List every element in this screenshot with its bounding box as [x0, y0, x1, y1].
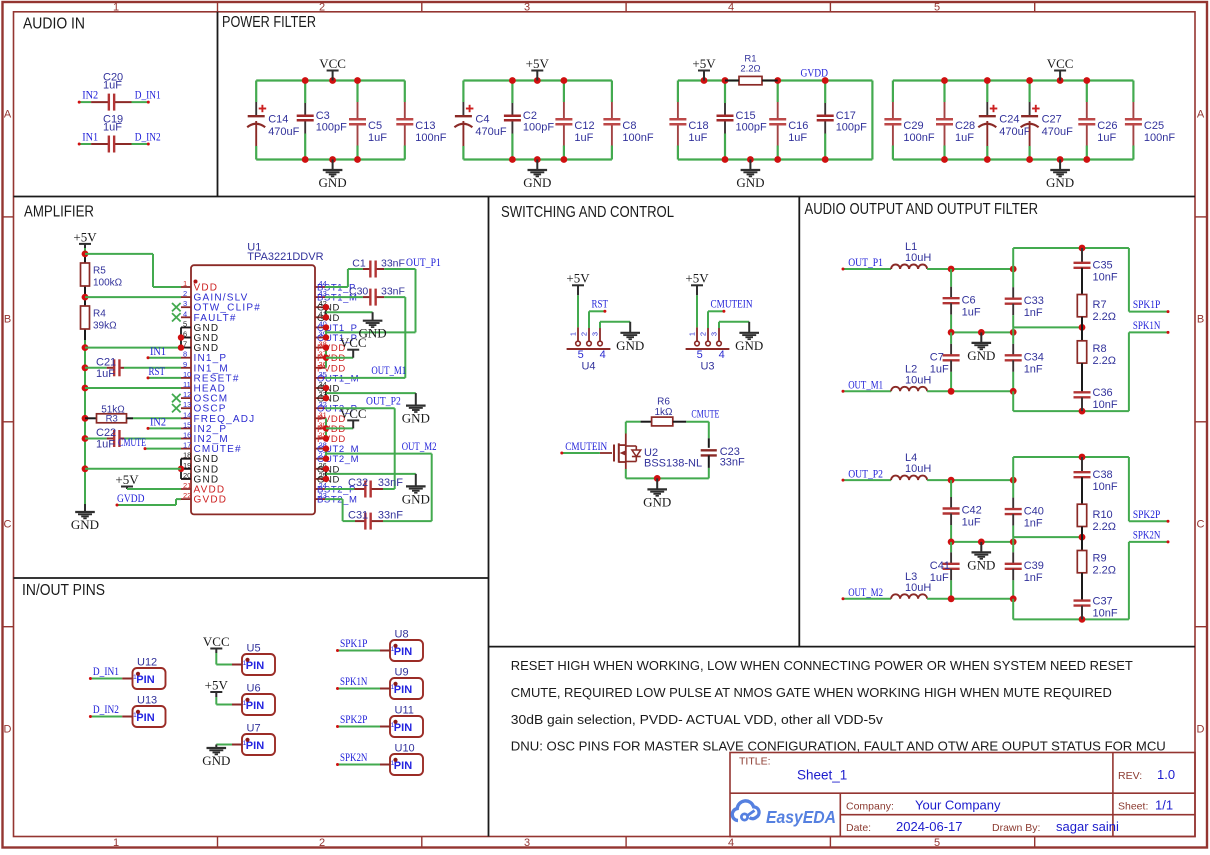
- svg-text:+5V: +5V: [73, 229, 97, 244]
- svg-text:GND: GND: [643, 494, 671, 509]
- svg-text:SPK1P: SPK1P: [340, 638, 367, 650]
- svg-text:100pF: 100pF: [316, 122, 347, 134]
- svg-text:C8: C8: [622, 120, 636, 132]
- svg-text:C5: C5: [368, 120, 382, 132]
- svg-text:OUT_P1: OUT_P1: [406, 257, 441, 269]
- svg-text:3: 3: [524, 837, 530, 849]
- svg-text:U11: U11: [395, 705, 414, 717]
- svg-text:D_IN2: D_IN2: [135, 132, 161, 144]
- svg-text:OUT_M2: OUT_M2: [402, 441, 437, 453]
- svg-text:15: 15: [183, 420, 191, 429]
- svg-text:1: 1: [183, 279, 187, 288]
- svg-text:39kΩ: 39kΩ: [93, 321, 117, 332]
- svg-text:1: 1: [569, 332, 578, 336]
- svg-text:PIN: PIN: [394, 646, 412, 658]
- svg-text:1: 1: [391, 760, 395, 767]
- svg-text:1: 1: [113, 837, 119, 849]
- svg-text:5: 5: [697, 349, 703, 361]
- svg-text:2.2Ω: 2.2Ω: [1093, 521, 1117, 533]
- svg-text:R10: R10: [1093, 509, 1113, 521]
- svg-text:IN/OUT PINS: IN/OUT PINS: [22, 582, 105, 599]
- svg-text:100pF: 100pF: [736, 122, 767, 134]
- svg-text:1/1: 1/1: [1155, 798, 1173, 813]
- svg-text:33nF: 33nF: [378, 509, 403, 521]
- svg-text:1nF: 1nF: [1024, 307, 1043, 319]
- svg-text:C13: C13: [415, 120, 435, 132]
- svg-text:R8: R8: [1093, 343, 1107, 355]
- svg-text:R7: R7: [1093, 299, 1107, 311]
- svg-text:33nF: 33nF: [381, 285, 405, 297]
- svg-text:VCC: VCC: [1047, 56, 1074, 71]
- svg-text:A: A: [4, 109, 12, 121]
- svg-text:SPK1P: SPK1P: [1133, 299, 1160, 311]
- svg-text:+5V: +5V: [566, 271, 590, 286]
- svg-text:PIN: PIN: [246, 700, 264, 712]
- svg-text:R3: R3: [106, 414, 118, 425]
- svg-text:470uF: 470uF: [999, 126, 1030, 138]
- svg-text:B: B: [4, 314, 11, 326]
- svg-text:IN2: IN2: [82, 90, 98, 102]
- svg-text:RST: RST: [149, 366, 166, 378]
- svg-text:21: 21: [183, 481, 191, 490]
- svg-text:C28: C28: [955, 120, 975, 132]
- svg-text:TITLE:: TITLE:: [739, 756, 771, 768]
- svg-text:100nF: 100nF: [622, 132, 653, 144]
- svg-text:R9: R9: [1093, 553, 1107, 565]
- svg-text:A: A: [1197, 109, 1205, 121]
- svg-text:PIN: PIN: [394, 760, 412, 772]
- svg-text:OUT_M1: OUT_M1: [848, 380, 883, 392]
- svg-text:16: 16: [183, 431, 191, 440]
- svg-text:SPK2N: SPK2N: [340, 752, 368, 764]
- svg-text:C2: C2: [523, 110, 537, 122]
- svg-text:2.2Ω: 2.2Ω: [1093, 355, 1117, 367]
- svg-text:30dB gain selection, PVDD- ACT: 30dB gain selection, PVDD- ACTUAL VDD, o…: [511, 713, 884, 727]
- svg-text:C35: C35: [1093, 260, 1113, 272]
- svg-text:C: C: [1197, 519, 1205, 531]
- svg-text:1uF: 1uF: [955, 132, 974, 144]
- svg-text:33nF: 33nF: [720, 457, 745, 469]
- svg-text:5: 5: [934, 837, 940, 849]
- svg-text:17: 17: [183, 441, 191, 450]
- svg-text:GND: GND: [1046, 175, 1074, 190]
- svg-text:D: D: [4, 724, 12, 736]
- svg-text:10nF: 10nF: [1093, 607, 1118, 619]
- svg-text:Date:: Date:: [846, 822, 871, 834]
- svg-text:GND: GND: [523, 175, 551, 190]
- svg-text:Your Company: Your Company: [915, 798, 1001, 813]
- svg-text:100nF: 100nF: [903, 132, 934, 144]
- svg-text:5: 5: [934, 1, 940, 13]
- svg-text:1: 1: [243, 660, 247, 667]
- svg-text:3: 3: [710, 332, 719, 336]
- svg-text:1uF: 1uF: [930, 364, 949, 376]
- svg-text:C33: C33: [1024, 295, 1044, 307]
- svg-text:U8: U8: [395, 629, 409, 641]
- svg-text:C29: C29: [903, 120, 923, 132]
- svg-text:U5: U5: [247, 643, 261, 655]
- svg-text:4: 4: [719, 349, 725, 361]
- svg-text:C1: C1: [352, 257, 366, 269]
- svg-text:2: 2: [183, 289, 187, 298]
- svg-text:1uF: 1uF: [962, 306, 981, 318]
- svg-text:IN1: IN1: [82, 132, 98, 144]
- svg-text:1uF: 1uF: [368, 132, 387, 144]
- svg-text:100pF: 100pF: [836, 122, 867, 134]
- svg-text:SPK2N: SPK2N: [1133, 530, 1161, 542]
- svg-text:1.0: 1.0: [1157, 767, 1175, 782]
- svg-text:CMUTEIN: CMUTEIN: [711, 299, 754, 311]
- svg-text:GND: GND: [967, 557, 995, 572]
- svg-text:CMUTE, REQUIRED LOW PULSE AT N: CMUTE, REQUIRED LOW PULSE AT NMOS GATE W…: [511, 686, 1112, 700]
- svg-text:U6: U6: [247, 683, 261, 695]
- svg-text:C38: C38: [1093, 469, 1113, 481]
- svg-text:C15: C15: [736, 110, 756, 122]
- svg-text:C25: C25: [1144, 120, 1164, 132]
- svg-text:10uH: 10uH: [905, 463, 931, 475]
- svg-text:2.2Ω: 2.2Ω: [1093, 565, 1117, 577]
- svg-text:5: 5: [578, 349, 584, 361]
- svg-text:GND: GND: [616, 338, 644, 353]
- svg-text:1: 1: [391, 646, 395, 653]
- svg-text:Drawn By:: Drawn By:: [992, 822, 1040, 834]
- svg-text:10uH: 10uH: [905, 252, 931, 264]
- svg-text:C31: C31: [348, 509, 368, 521]
- svg-text:SPK1N: SPK1N: [1133, 320, 1161, 332]
- svg-text:C40: C40: [1024, 505, 1044, 517]
- svg-text:C3: C3: [316, 110, 330, 122]
- svg-text:10uH: 10uH: [905, 374, 931, 386]
- svg-text:1uF: 1uF: [103, 79, 122, 91]
- svg-text:BSS138-NL: BSS138-NL: [644, 458, 702, 470]
- svg-text:R6: R6: [657, 396, 670, 407]
- svg-text:D_IN2: D_IN2: [93, 704, 119, 716]
- svg-text:Sheet_1: Sheet_1: [797, 768, 847, 783]
- svg-text:GVDD: GVDD: [194, 495, 228, 506]
- svg-text:31: 31: [319, 410, 327, 419]
- svg-text:D_IN1: D_IN1: [93, 666, 119, 678]
- svg-text:+5V: +5V: [526, 56, 550, 71]
- svg-text:U10: U10: [395, 743, 415, 755]
- svg-text:CMUTEIN: CMUTEIN: [565, 441, 608, 453]
- svg-text:C4: C4: [475, 114, 489, 126]
- svg-text:C: C: [4, 519, 12, 531]
- svg-text:1: 1: [688, 332, 697, 336]
- svg-text:10nF: 10nF: [1093, 481, 1118, 493]
- svg-text:1: 1: [133, 712, 137, 719]
- svg-text:C14: C14: [268, 114, 288, 126]
- svg-text:C21: C21: [96, 357, 116, 369]
- svg-text:C36: C36: [1093, 387, 1113, 399]
- svg-text:AMPLIFIER: AMPLIFIER: [24, 204, 94, 221]
- svg-text:3: 3: [183, 299, 187, 308]
- svg-text:C6: C6: [962, 294, 976, 306]
- svg-text:REV:: REV:: [1118, 770, 1142, 782]
- svg-text:2: 2: [699, 332, 708, 336]
- svg-text:1: 1: [391, 684, 395, 691]
- svg-text:C27: C27: [1042, 114, 1062, 126]
- svg-text:AUDIO OUTPUT AND OUTPUT FILTER: AUDIO OUTPUT AND OUTPUT FILTER: [805, 201, 1039, 218]
- svg-text:3: 3: [591, 332, 600, 336]
- svg-text:2: 2: [319, 837, 325, 849]
- svg-text:100pF: 100pF: [523, 122, 554, 134]
- svg-text:VCC: VCC: [203, 634, 230, 649]
- svg-text:DNU: OSC PINS FOR MASTER SLAVE: DNU: OSC PINS FOR MASTER SLAVE CONFIGURA…: [511, 740, 1166, 754]
- svg-text:470uF: 470uF: [268, 126, 299, 138]
- svg-text:SPK1N: SPK1N: [340, 676, 368, 688]
- svg-text:C30: C30: [349, 285, 368, 297]
- svg-text:1uF: 1uF: [96, 439, 115, 451]
- svg-text:2: 2: [319, 1, 325, 13]
- svg-text:C39: C39: [1024, 560, 1044, 572]
- svg-text:D: D: [1197, 724, 1205, 736]
- svg-text:OUT_M2: OUT_M2: [848, 587, 883, 599]
- svg-text:U13: U13: [137, 695, 157, 707]
- svg-text:C24: C24: [999, 114, 1019, 126]
- svg-text:GND: GND: [71, 517, 99, 532]
- svg-text:4: 4: [728, 837, 734, 849]
- svg-text:C18: C18: [688, 120, 708, 132]
- svg-text:sagar saini: sagar saini: [1056, 819, 1119, 834]
- svg-text:B: B: [1197, 314, 1204, 326]
- svg-text:GVDD: GVDD: [117, 493, 145, 505]
- svg-text:14: 14: [183, 410, 191, 419]
- svg-text:U3: U3: [700, 361, 714, 373]
- svg-text:D_IN1: D_IN1: [135, 90, 161, 102]
- svg-text:3: 3: [524, 1, 530, 13]
- svg-text:CMUTE: CMUTE: [118, 437, 146, 449]
- svg-text:1: 1: [391, 722, 395, 729]
- svg-text:13: 13: [183, 400, 191, 409]
- svg-text:4: 4: [728, 1, 734, 13]
- svg-text:470uF: 470uF: [1042, 126, 1073, 138]
- svg-text:+5V: +5V: [205, 677, 229, 692]
- svg-text:TPA3221DDVR: TPA3221DDVR: [247, 251, 323, 263]
- svg-text:GND: GND: [202, 753, 230, 768]
- svg-text:PIN: PIN: [136, 712, 154, 724]
- svg-text:C26: C26: [1097, 120, 1117, 132]
- svg-text:VCC: VCC: [340, 335, 367, 350]
- svg-text:GND: GND: [319, 175, 347, 190]
- svg-text:GND: GND: [402, 411, 430, 426]
- svg-text:10nF: 10nF: [1093, 272, 1118, 284]
- svg-text:1uF: 1uF: [788, 132, 807, 144]
- svg-text:1: 1: [133, 674, 137, 681]
- svg-text:2024-06-17: 2024-06-17: [896, 819, 963, 834]
- svg-text:4: 4: [183, 309, 187, 318]
- svg-text:OUT_P2: OUT_P2: [848, 468, 883, 480]
- svg-text:IN1: IN1: [150, 346, 166, 358]
- svg-text:C12: C12: [574, 120, 594, 132]
- svg-text:SPK2P: SPK2P: [340, 714, 367, 726]
- svg-text:1kΩ: 1kΩ: [654, 407, 673, 418]
- svg-text:1uF: 1uF: [574, 132, 593, 144]
- svg-text:C42: C42: [962, 505, 982, 517]
- svg-text:GND: GND: [402, 491, 430, 506]
- svg-text:8: 8: [183, 350, 187, 359]
- svg-text:RST: RST: [592, 299, 609, 311]
- svg-text:10: 10: [183, 370, 191, 379]
- svg-text:22: 22: [183, 491, 191, 500]
- svg-text:1uF: 1uF: [930, 572, 949, 584]
- svg-text:100kΩ: 100kΩ: [93, 278, 123, 289]
- svg-text:U12: U12: [137, 657, 157, 669]
- svg-text:OUT_P1: OUT_P1: [848, 257, 883, 269]
- svg-text:C41: C41: [930, 560, 950, 572]
- svg-text:PIN: PIN: [394, 722, 412, 734]
- svg-text:RESET HIGH WHEN WORKING, LOW W: RESET HIGH WHEN WORKING, LOW WHEN CONNEC…: [511, 659, 1133, 673]
- svg-text:1: 1: [243, 700, 247, 707]
- svg-text:R4: R4: [93, 309, 106, 320]
- svg-text:100nF: 100nF: [1144, 132, 1175, 144]
- svg-text:PIN: PIN: [136, 674, 154, 686]
- svg-text:100nF: 100nF: [415, 132, 446, 144]
- svg-text:10nF: 10nF: [1093, 399, 1118, 411]
- svg-text:PIN: PIN: [246, 660, 264, 672]
- svg-text:R5: R5: [93, 266, 106, 277]
- svg-text:1nF: 1nF: [1024, 517, 1043, 529]
- svg-text:2.2Ω: 2.2Ω: [740, 64, 760, 75]
- svg-text:AUDIO IN: AUDIO IN: [23, 16, 85, 33]
- svg-text:Company:: Company:: [846, 801, 894, 813]
- svg-text:U9: U9: [395, 667, 409, 679]
- svg-text:33nF: 33nF: [381, 257, 405, 269]
- svg-text:IN2: IN2: [150, 417, 166, 429]
- svg-text:33nF: 33nF: [378, 477, 403, 489]
- svg-text:1: 1: [243, 740, 247, 747]
- svg-text:1nF: 1nF: [1024, 364, 1043, 376]
- svg-text:GND: GND: [735, 338, 763, 353]
- svg-text:EasyEDA: EasyEDA: [766, 807, 836, 827]
- svg-text:U4: U4: [581, 361, 595, 373]
- svg-text:C34: C34: [1024, 352, 1044, 364]
- svg-text:C16: C16: [788, 120, 808, 132]
- svg-text:+5V: +5V: [115, 472, 139, 487]
- svg-text:1uF: 1uF: [688, 132, 707, 144]
- svg-text:SWITCHING AND CONTROL: SWITCHING AND CONTROL: [501, 204, 674, 221]
- svg-text:PIN: PIN: [394, 684, 412, 696]
- svg-text:1nF: 1nF: [1024, 572, 1043, 584]
- svg-text:C22: C22: [96, 427, 116, 439]
- svg-text:C7: C7: [930, 352, 944, 364]
- svg-text:C37: C37: [1093, 595, 1113, 607]
- svg-text:U7: U7: [247, 723, 261, 735]
- svg-text:2: 2: [580, 332, 589, 336]
- svg-text:11: 11: [183, 380, 191, 389]
- svg-text:PIN: PIN: [246, 740, 264, 752]
- svg-text:Sheet:: Sheet:: [1118, 801, 1148, 813]
- svg-text:OUT_P2: OUT_P2: [366, 396, 401, 408]
- svg-text:1uF: 1uF: [103, 121, 122, 133]
- svg-text:C17: C17: [836, 110, 856, 122]
- svg-text:470uF: 470uF: [475, 126, 506, 138]
- svg-text:C32: C32: [348, 477, 368, 489]
- svg-text:SPK2P: SPK2P: [1133, 509, 1160, 521]
- svg-text:2.2Ω: 2.2Ω: [1093, 311, 1117, 323]
- svg-text:VCC: VCC: [319, 56, 346, 71]
- svg-text:+5V: +5V: [685, 271, 709, 286]
- svg-text:1uF: 1uF: [1097, 132, 1116, 144]
- svg-text:GND: GND: [967, 348, 995, 363]
- svg-text:CMUTE: CMUTE: [691, 409, 719, 421]
- svg-text:9: 9: [183, 360, 187, 369]
- svg-text:GVDD: GVDD: [801, 68, 829, 80]
- svg-text:1uF: 1uF: [962, 517, 981, 529]
- svg-text:GND: GND: [736, 175, 764, 190]
- svg-text:POWER FILTER: POWER FILTER: [222, 14, 316, 31]
- svg-text:VCC: VCC: [340, 406, 367, 421]
- svg-text:10uH: 10uH: [905, 582, 931, 594]
- svg-text:1uF: 1uF: [96, 368, 115, 380]
- svg-text:4: 4: [600, 349, 606, 361]
- svg-text:12: 12: [183, 390, 191, 399]
- svg-text:OUT_M1: OUT_M1: [371, 365, 406, 377]
- svg-text:+5V: +5V: [692, 56, 716, 71]
- svg-text:1: 1: [113, 1, 119, 13]
